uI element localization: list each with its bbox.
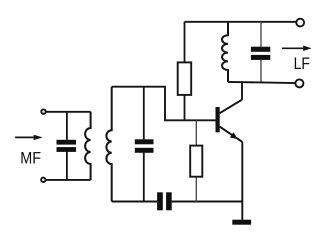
terminal LF bottom <box>295 79 303 87</box>
wire (C3 to emitter line) <box>172 201 243 203</box>
wire (L3 bottom to LF bottom terminal) <box>228 82 296 83</box>
wire (MF top terminal to tank top) <box>46 111 91 113</box>
wire (collector to output tank) <box>241 82 243 100</box>
terminal MF bottom <box>41 178 45 182</box>
capacitor C2 <box>135 87 154 202</box>
svg-text:LF: LF <box>294 54 310 73</box>
wire (MF bottom terminal to tank bottom) <box>46 179 91 181</box>
inductor L2 transformer secondary <box>106 87 111 202</box>
capacitor C1 <box>57 112 77 180</box>
wire (L2 top over step down to Q1 base) <box>112 87 216 121</box>
wire (emitter down to ground) <box>241 142 243 220</box>
terminal MF top <box>41 109 45 113</box>
inductor L3 output coil <box>222 22 228 82</box>
inductor L1 transformer primary <box>85 112 91 180</box>
arrow LF output <box>282 46 312 52</box>
resistor R1 <box>178 22 192 121</box>
resistor R2 <box>190 120 202 201</box>
capacitor C4 <box>251 22 270 82</box>
wire (top supply rail to LF top terminal) <box>185 21 297 23</box>
capacitor C3 <box>157 192 172 210</box>
svg-text:MF: MF <box>20 148 41 167</box>
terminal LF top <box>296 19 304 27</box>
wire (tank bottom to C3) <box>112 201 158 203</box>
ground <box>232 220 251 225</box>
arrow MF input <box>15 135 43 140</box>
transistor Q1 <box>216 100 243 142</box>
